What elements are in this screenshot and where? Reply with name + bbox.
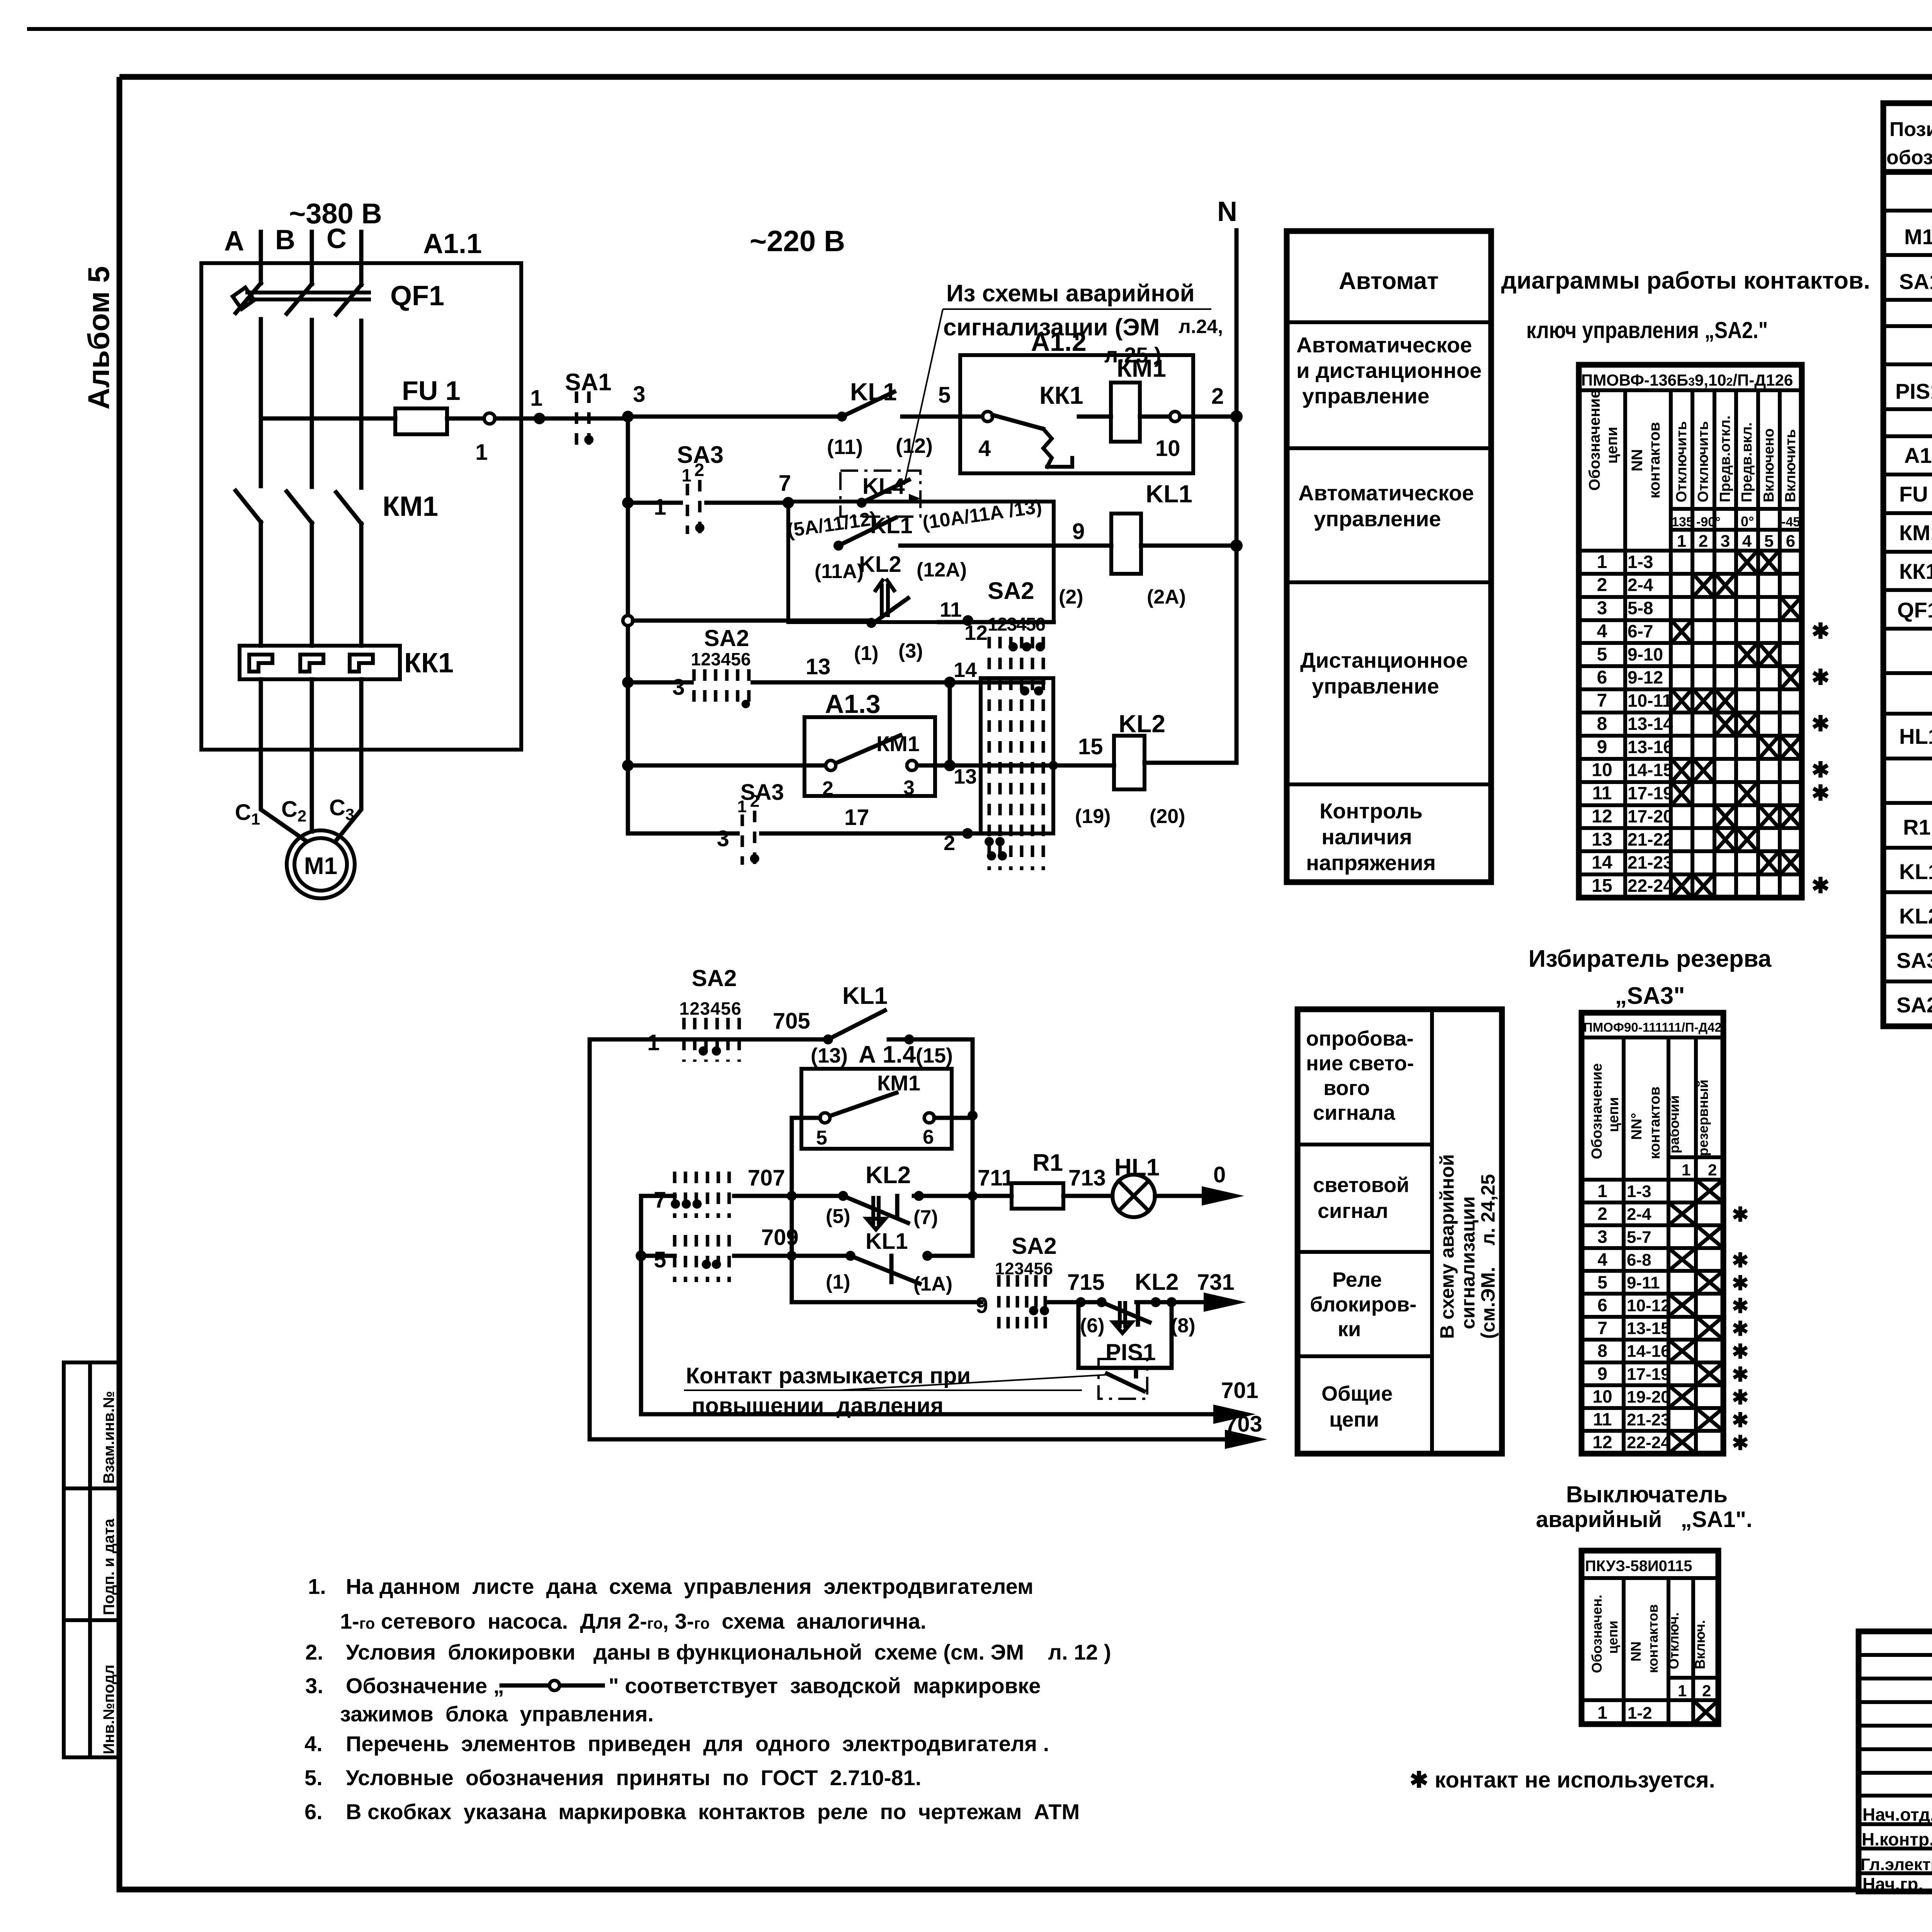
svg-text:FU 1: FU 1	[402, 376, 461, 406]
switch SA3 contact 1-2	[677, 442, 724, 534]
wire KM1 bypass right	[934, 1116, 973, 1120]
svg-text:В: В	[275, 224, 295, 255]
coil KL1	[1059, 480, 1192, 608]
svg-text:Обозначен.: Обозначен.	[1589, 1595, 1605, 1673]
contactor main contacts KM1	[236, 491, 438, 524]
svg-text:SA1: SA1	[1899, 269, 1932, 294]
svg-text:сигнала: сигнала	[1313, 1101, 1396, 1124]
node A	[224, 226, 244, 257]
svg-text:9-12: 9-12	[1628, 667, 1663, 687]
svg-text:QF1: QF1	[1897, 598, 1932, 622]
node 13	[944, 760, 977, 788]
svg-text:11: 11	[1592, 783, 1612, 804]
pressure switch PIS1	[1078, 1302, 1172, 1368]
coil KM1	[1111, 354, 1166, 442]
switch SA2 contact (row4)	[691, 625, 751, 711]
svg-text:KL1: KL1	[850, 378, 897, 406]
row KK1	[1899, 559, 1932, 586]
label опробование светового сигнала	[1306, 1027, 1414, 1124]
net N	[1217, 196, 1237, 763]
thermal contact KK1	[993, 381, 1083, 467]
svg-text:Автоматическое: Автоматическое	[1298, 481, 1474, 505]
svg-text:KL4: KL4	[862, 474, 905, 499]
svg-text:1: 1	[1677, 532, 1686, 551]
svg-text:123456: 123456	[988, 614, 1046, 635]
wire row5 bus to A1.3	[622, 760, 831, 771]
svg-text:Предв.откл.: Предв.откл.	[1717, 415, 1733, 502]
svg-text:✱: ✱	[1732, 1272, 1749, 1294]
wire row707	[641, 1187, 675, 1213]
wire phase C to motor	[336, 679, 361, 840]
svg-text:-90°: -90°	[1696, 515, 1721, 529]
svg-text:(1): (1)	[854, 642, 879, 665]
sidebar label Подп. и дата	[100, 1519, 117, 1615]
svg-text:Выключатель: Выключатель	[1566, 1481, 1728, 1507]
svg-text:7: 7	[1597, 690, 1607, 711]
svg-text:8: 8	[1597, 714, 1607, 734]
svg-text:1: 1	[1597, 1702, 1607, 1723]
svg-text:6: 6	[1597, 1295, 1607, 1315]
row R1	[1903, 815, 1932, 840]
svg-text:А 1.4: А 1.4	[859, 1041, 916, 1068]
svg-text:(2): (2)	[1059, 586, 1083, 608]
svg-text:713: 713	[1068, 1165, 1106, 1190]
svg-text:„SA3": „SA3"	[1615, 983, 1685, 1009]
svg-text:17-19: 17-19	[1627, 1365, 1670, 1384]
wire KL2 to arrow 731	[1136, 1270, 1246, 1312]
svg-text:(8): (8)	[1171, 1315, 1196, 1337]
svg-text:R1: R1	[1032, 1150, 1063, 1176]
svg-text:0°: 0°	[1741, 514, 1754, 529]
svg-text:Подп. и дата: Подп. и дата	[100, 1519, 117, 1615]
svg-text:14-16: 14-16	[1627, 1342, 1670, 1361]
terminal C3	[329, 795, 354, 823]
svg-text:1: 1	[737, 797, 747, 816]
svg-text:12: 12	[1592, 1432, 1612, 1452]
svg-text:М1: М1	[304, 853, 337, 879]
node 2 on N	[1180, 384, 1243, 423]
svg-text:21-23: 21-23	[1628, 852, 1673, 872]
svg-text:3.: 3.	[305, 1673, 323, 1698]
resistor R1	[1012, 1150, 1063, 1209]
svg-text:(13): (13)	[811, 1044, 848, 1067]
svg-text:Условные обозначения приняты: Условные обозначения приняты по ГОСТ 2.7…	[346, 1765, 921, 1790]
signature rows	[1861, 1804, 1932, 1895]
wire phase B top	[310, 232, 314, 284]
svg-text:ПКУЗ-58И0115: ПКУЗ-58И0115	[1585, 1558, 1692, 1575]
svg-text:А: А	[224, 226, 244, 257]
label (10А/11А/13)	[921, 495, 1043, 534]
svg-text:KL2: KL2	[866, 1162, 911, 1189]
label Реле блокировки	[1310, 1268, 1417, 1341]
svg-text:17-19: 17-19	[1628, 783, 1673, 803]
note Контакт размыкается	[684, 1363, 1106, 1418]
row PIS1	[1895, 370, 1932, 410]
row KL1	[1899, 859, 1932, 885]
svg-text:Избиратель резерва: Избиратель резерва	[1529, 946, 1772, 972]
svg-text:4.: 4.	[304, 1731, 323, 1756]
svg-text:22-24: 22-24	[1627, 1433, 1670, 1452]
svg-text:NN: NN	[1629, 449, 1646, 471]
svg-text:KL1: KL1	[842, 983, 888, 1009]
svg-text:SA1: SA1	[565, 369, 612, 396]
svg-text:4: 4	[1597, 1249, 1607, 1269]
svg-text:Дистанционное: Дистанционное	[1300, 648, 1468, 672]
circuit breaker QF1	[233, 281, 444, 315]
wire right drop 705-709	[968, 1039, 978, 1256]
svg-text:15: 15	[1078, 734, 1103, 759]
wire coil KL1 to N	[1141, 539, 1243, 552]
svg-text:1-го сетевого насоса. Для 2-: 1-го сетевого насоса. Для 2-го, 3-го схе…	[340, 1609, 926, 1633]
svg-text:2: 2	[694, 460, 704, 480]
svg-text:SA3: SA3	[740, 780, 784, 805]
svg-text:5-7: 5-7	[1627, 1228, 1651, 1247]
svg-text:(1А): (1А)	[913, 1273, 952, 1295]
svg-text:А1: А1	[1904, 443, 1932, 468]
switch SA3 contact (row6)	[737, 780, 784, 865]
node 14	[944, 658, 977, 688]
svg-text:731: 731	[1197, 1270, 1235, 1295]
label Автомат	[1339, 268, 1439, 294]
wire coil KL2 to N	[1145, 761, 1236, 765]
svg-text:~220 В: ~220 В	[750, 225, 845, 258]
svg-text:135: 135	[1672, 515, 1694, 529]
row QF1	[1897, 598, 1932, 624]
sidebar label Взам.инв.№	[100, 1391, 117, 1484]
svg-text:цепи: цепи	[1604, 427, 1621, 464]
wire phase B to motor	[310, 679, 314, 832]
wire row3	[623, 616, 871, 626]
svg-text:✱: ✱	[1811, 665, 1830, 689]
relay contact KL1 (1)(1А)	[826, 1229, 952, 1295]
svg-text:сигнализации (ЭМ: сигнализации (ЭМ	[943, 314, 1160, 341]
svg-text:ПМОВФ-136Б39,102/П-Д126: ПМОВФ-136Б39,102/П-Д126	[1581, 371, 1793, 389]
wire SA2 to KL1 contact	[734, 1225, 850, 1256]
unit box A1.1	[201, 228, 521, 750]
svg-text:KL1: KL1	[870, 513, 913, 538]
wire A1.3 to coil KL2	[917, 764, 1114, 768]
svg-text:Инв.№подл: Инв.№подл	[100, 1665, 117, 1754]
svg-text:✱: ✱	[1811, 781, 1830, 805]
svg-text:блокиров-: блокиров-	[1310, 1293, 1417, 1316]
svg-text:1-3: 1-3	[1628, 552, 1653, 572]
svg-text:1: 1	[654, 495, 666, 520]
parts table headers	[1886, 118, 1932, 169]
svg-text:(см.ЭМ. л. 24,25: (см.ЭМ. л. 24,25	[1477, 1174, 1499, 1339]
wire row701	[641, 1378, 1259, 1424]
switch SA2 contact (709)	[675, 1235, 729, 1282]
wire phase A to motor	[261, 679, 305, 840]
svg-text:А1.1: А1.1	[423, 228, 482, 259]
SA2 contact diagram table	[1579, 365, 1830, 898]
svg-text:КМ1: КМ1	[383, 491, 438, 522]
svg-text:Реле: Реле	[1332, 1268, 1382, 1291]
svg-text:Н.контр.: Н.контр.	[1862, 1829, 1932, 1849]
svg-text:FU 1: FU 1	[1899, 482, 1932, 506]
svg-text:✱: ✱	[1732, 1386, 1749, 1409]
svg-text:KL1: KL1	[866, 1229, 908, 1254]
svg-text:✱: ✱	[1732, 1432, 1749, 1454]
svg-text:1: 1	[475, 440, 488, 465]
svg-text:цепи: цепи	[1605, 1097, 1622, 1132]
svg-text:11: 11	[940, 598, 962, 621]
node 12	[963, 615, 988, 645]
svg-text:Предв.вкл.: Предв.вкл.	[1739, 422, 1755, 502]
svg-text:(11): (11)	[827, 435, 863, 459]
svg-text:1: 1	[647, 1030, 660, 1055]
svg-text:10-11: 10-11	[1628, 690, 1672, 711]
unit box A1.3	[804, 689, 935, 796]
wire SA2 to node14	[753, 654, 1043, 682]
svg-text:2-4: 2-4	[1628, 575, 1653, 595]
svg-text:2-4: 2-4	[1627, 1205, 1651, 1224]
svg-text:N: N	[1217, 196, 1237, 227]
svg-text:управление: управление	[1302, 384, 1429, 408]
pin 4	[978, 412, 993, 461]
svg-text:л.25 ): л.25 )	[1104, 343, 1162, 367]
svg-text:9-10: 9-10	[1628, 644, 1663, 664]
svg-text:2.: 2.	[305, 1640, 323, 1664]
svg-text:6: 6	[1597, 667, 1607, 688]
svg-text:14: 14	[954, 658, 977, 682]
svg-text:9: 9	[976, 1293, 988, 1318]
svg-text:КМ1: КМ1	[876, 731, 920, 756]
svg-text:✱: ✱	[1811, 758, 1830, 782]
svg-text:17-20: 17-20	[1628, 806, 1673, 826]
svg-text:6-7: 6-7	[1628, 621, 1653, 641]
svg-text:7: 7	[654, 1187, 666, 1213]
svg-text:5: 5	[816, 1127, 827, 1149]
label (5А/11/12)	[786, 507, 878, 541]
svg-text:Включить: Включить	[1782, 429, 1799, 502]
svg-text:Обозначение: Обозначение	[1589, 1063, 1605, 1159]
label световой сигнал	[1313, 1173, 1409, 1223]
svg-text:6: 6	[923, 1126, 934, 1148]
svg-text:SA2: SA2	[1896, 993, 1932, 1017]
svg-text:(1): (1)	[826, 1271, 850, 1293]
label Дистанционное управление	[1300, 648, 1468, 698]
wire row709	[641, 1247, 797, 1272]
svg-text:13-16: 13-16	[1628, 737, 1673, 757]
wire row4 bus to SA2	[622, 675, 692, 700]
svg-text:М1: М1	[1904, 224, 1932, 249]
svg-text:Из схемы аварийной: Из схемы аварийной	[946, 280, 1195, 307]
wire row703	[590, 1412, 1267, 1449]
wire row705	[590, 1030, 828, 1055]
wire row705 right	[889, 1034, 973, 1044]
svg-text:1-3: 1-3	[1627, 1182, 1651, 1201]
note from alarm circuit	[943, 280, 1223, 367]
title Избиратель резерва SA3	[1529, 946, 1772, 1009]
svg-text:Обозначение: Обозначение	[1586, 390, 1603, 491]
svg-text:обознач: обознач	[1886, 146, 1932, 169]
svg-text:Отключить: Отключить	[1695, 421, 1711, 502]
svg-text:В схему аварийной: В схему аварийной	[1436, 1154, 1458, 1339]
unit box A1.4	[801, 1041, 952, 1149]
label Контроль наличия напряжения	[1306, 799, 1436, 875]
svg-text:Отключить: Отключить	[1673, 421, 1690, 502]
svg-text:PIS1: PIS1	[1895, 379, 1932, 403]
svg-text:15: 15	[1592, 876, 1612, 896]
svg-text:0: 0	[1213, 1162, 1226, 1187]
wire SA3 to node7	[706, 501, 788, 505]
svg-text:КК1: КК1	[1899, 559, 1932, 583]
lamp HL1	[1112, 1154, 1160, 1217]
svg-text:KL2: KL2	[859, 552, 901, 577]
relay contact KL1 (11)(12)	[827, 378, 933, 459]
wire row6	[628, 826, 738, 851]
svg-text:и дистанционное: и дистанционное	[1296, 358, 1482, 383]
wire fuse to node 1	[447, 417, 485, 421]
svg-text:ПМОФ90-111111/П-Д42: ПМОФ90-111111/П-Д42	[1583, 1020, 1722, 1034]
title block frame	[1859, 1631, 1932, 1891]
svg-text:SA2: SA2	[704, 625, 749, 651]
wire phase C top	[359, 232, 364, 285]
switch SA2 column bundle	[981, 578, 1058, 870]
node 7	[779, 471, 794, 509]
wire SA2 to KL2 contact	[734, 1165, 843, 1201]
svg-text:С: С	[327, 223, 347, 254]
wire SA2 to KL2 contact	[1049, 1270, 1107, 1307]
svg-text:QF1: QF1	[390, 281, 444, 311]
svg-text:11: 11	[1593, 1409, 1612, 1429]
svg-text:2: 2	[1702, 1682, 1711, 1700]
svg-text:✱: ✱	[1732, 1409, 1749, 1432]
svg-text:9: 9	[1597, 737, 1607, 757]
svg-text:5-8: 5-8	[1628, 598, 1653, 618]
svg-text:9: 9	[1072, 519, 1085, 544]
svg-text:Общие: Общие	[1321, 1382, 1393, 1405]
svg-text:Альбом 5: Альбом 5	[82, 266, 116, 410]
wire phase B mid	[310, 320, 314, 487]
relay contact KL2 time-delay	[854, 552, 923, 665]
svg-text:аварийный „SA1".: аварийный „SA1".	[1536, 1507, 1752, 1532]
left sidebar stamp boxes	[64, 1362, 119, 1757]
svg-text:4: 4	[1742, 532, 1752, 551]
svg-text:123456: 123456	[691, 649, 751, 669]
svg-text:вого: вого	[1323, 1077, 1370, 1100]
svg-text:(2А): (2А)	[1147, 586, 1186, 608]
parts list table	[1883, 103, 1932, 1026]
row KM1	[1899, 520, 1932, 547]
coil KL2	[1075, 710, 1185, 828]
svg-text:13-15: 13-15	[1627, 1319, 1670, 1338]
svg-text:световой: световой	[1313, 1173, 1409, 1197]
svg-text:(7): (7)	[913, 1206, 938, 1229]
svg-text:2: 2	[1597, 1204, 1607, 1224]
leader line to KL4	[904, 309, 943, 485]
wire phase C mid	[359, 321, 364, 488]
svg-text:12: 12	[964, 621, 988, 645]
node C	[327, 223, 347, 254]
svg-text:КК1: КК1	[1039, 381, 1083, 409]
svg-text:KL2: KL2	[1119, 710, 1165, 738]
wire KM1 bypass left	[792, 1118, 820, 1196]
svg-text:✱: ✱	[1811, 873, 1830, 898]
label ~220 В	[750, 225, 845, 258]
row A1	[1904, 443, 1932, 470]
svg-text:Условия блокировки даны в ф: Условия блокировки даны в функциональной…	[346, 1640, 1111, 1664]
switch SA2 contact (707)	[671, 1172, 729, 1218]
relay contact KL1 (11А)(12А)	[815, 513, 967, 583]
svg-text:3: 3	[1597, 598, 1607, 619]
svg-text:✱: ✱	[1732, 1204, 1749, 1226]
svg-text:13: 13	[954, 765, 977, 788]
svg-text:цепи: цепи	[1605, 1621, 1621, 1654]
wire KL2 to node12	[939, 598, 1054, 622]
svg-text:зажимов блока управления.: зажимов блока управления.	[340, 1702, 654, 1726]
node 15	[1078, 734, 1103, 759]
wire KL1 to coil KL1	[900, 519, 1111, 546]
left sidebar label Альбом 5	[82, 266, 116, 410]
wire phase C lower	[359, 524, 364, 646]
wire KL2 to R1	[914, 1165, 1014, 1201]
svg-text:2: 2	[1597, 575, 1607, 595]
svg-text:Нач.гр.: Нач.гр.	[1862, 1874, 1923, 1894]
svg-text:3: 3	[633, 382, 645, 407]
svg-text:SA2: SA2	[1012, 1233, 1057, 1259]
svg-text:На данном листе дана схема: На данном листе дана схема управления эл…	[346, 1574, 1033, 1599]
svg-text:13: 13	[806, 654, 831, 679]
svg-text:705: 705	[773, 1009, 810, 1034]
row KL2	[1899, 904, 1932, 930]
svg-text:(3): (3)	[898, 640, 923, 662]
svg-text:KL2: KL2	[1135, 1269, 1179, 1295]
PIS1 pressure contact	[1099, 1359, 1147, 1399]
svg-text:2: 2	[1708, 1161, 1717, 1179]
node 3	[622, 382, 645, 422]
svg-text:711: 711	[978, 1165, 1014, 1190]
svg-text:5: 5	[1764, 532, 1774, 551]
contact KM1 aux (5)(6)	[816, 1071, 934, 1149]
svg-text:3: 3	[717, 826, 729, 851]
switch SA2 contact (705)	[679, 965, 741, 1062]
svg-text:701: 701	[1221, 1378, 1259, 1403]
svg-text:7: 7	[779, 471, 791, 496]
svg-text:✱: ✱	[1811, 619, 1830, 643]
wire HL1 to arrow 0	[1155, 1162, 1244, 1206]
wire bypass drop to row9	[792, 1196, 981, 1302]
svg-text:✱: ✱	[1732, 1318, 1749, 1340]
svg-text:ключ управления „SA2.": ключ управления „SA2."	[1526, 317, 1768, 343]
svg-text:Гл.электр.: Гл.электр.	[1861, 1855, 1932, 1874]
svg-text:6.: 6.	[304, 1799, 323, 1824]
lower bus 2	[636, 1196, 646, 1414]
SA3 selector table	[1582, 1013, 1749, 1454]
svg-text:13-14: 13-14	[1628, 714, 1673, 734]
svg-text:ки: ки	[1338, 1318, 1361, 1341]
wire SA3 to node2	[761, 805, 1001, 833]
svg-text:3: 3	[1721, 532, 1730, 551]
svg-text:контактов: контактов	[1647, 1087, 1663, 1159]
svg-text:715: 715	[1067, 1270, 1105, 1295]
svg-text:12: 12	[1592, 806, 1612, 827]
svg-text:4: 4	[1597, 621, 1607, 641]
svg-text:KL1: KL1	[1146, 480, 1192, 508]
svg-text:KL1: KL1	[1899, 859, 1932, 884]
svg-text:703: 703	[1225, 1412, 1262, 1437]
note контакт не используется	[1410, 1767, 1715, 1793]
wire row1 node3 to KL1	[628, 415, 842, 419]
svg-text:✱ контакт не используется.: ✱ контакт не используется.	[1410, 1767, 1715, 1793]
svg-text:Контроль: Контроль	[1320, 799, 1423, 823]
svg-text:SA2: SA2	[692, 965, 737, 991]
svg-text:1: 1	[530, 386, 543, 411]
svg-text:Перечень элементов приведен: Перечень элементов приведен для одного э…	[346, 1731, 1049, 1756]
label ~380 В	[289, 197, 382, 230]
wire R1 to HL1	[1063, 1165, 1112, 1196]
svg-text:(5): (5)	[826, 1205, 850, 1228]
